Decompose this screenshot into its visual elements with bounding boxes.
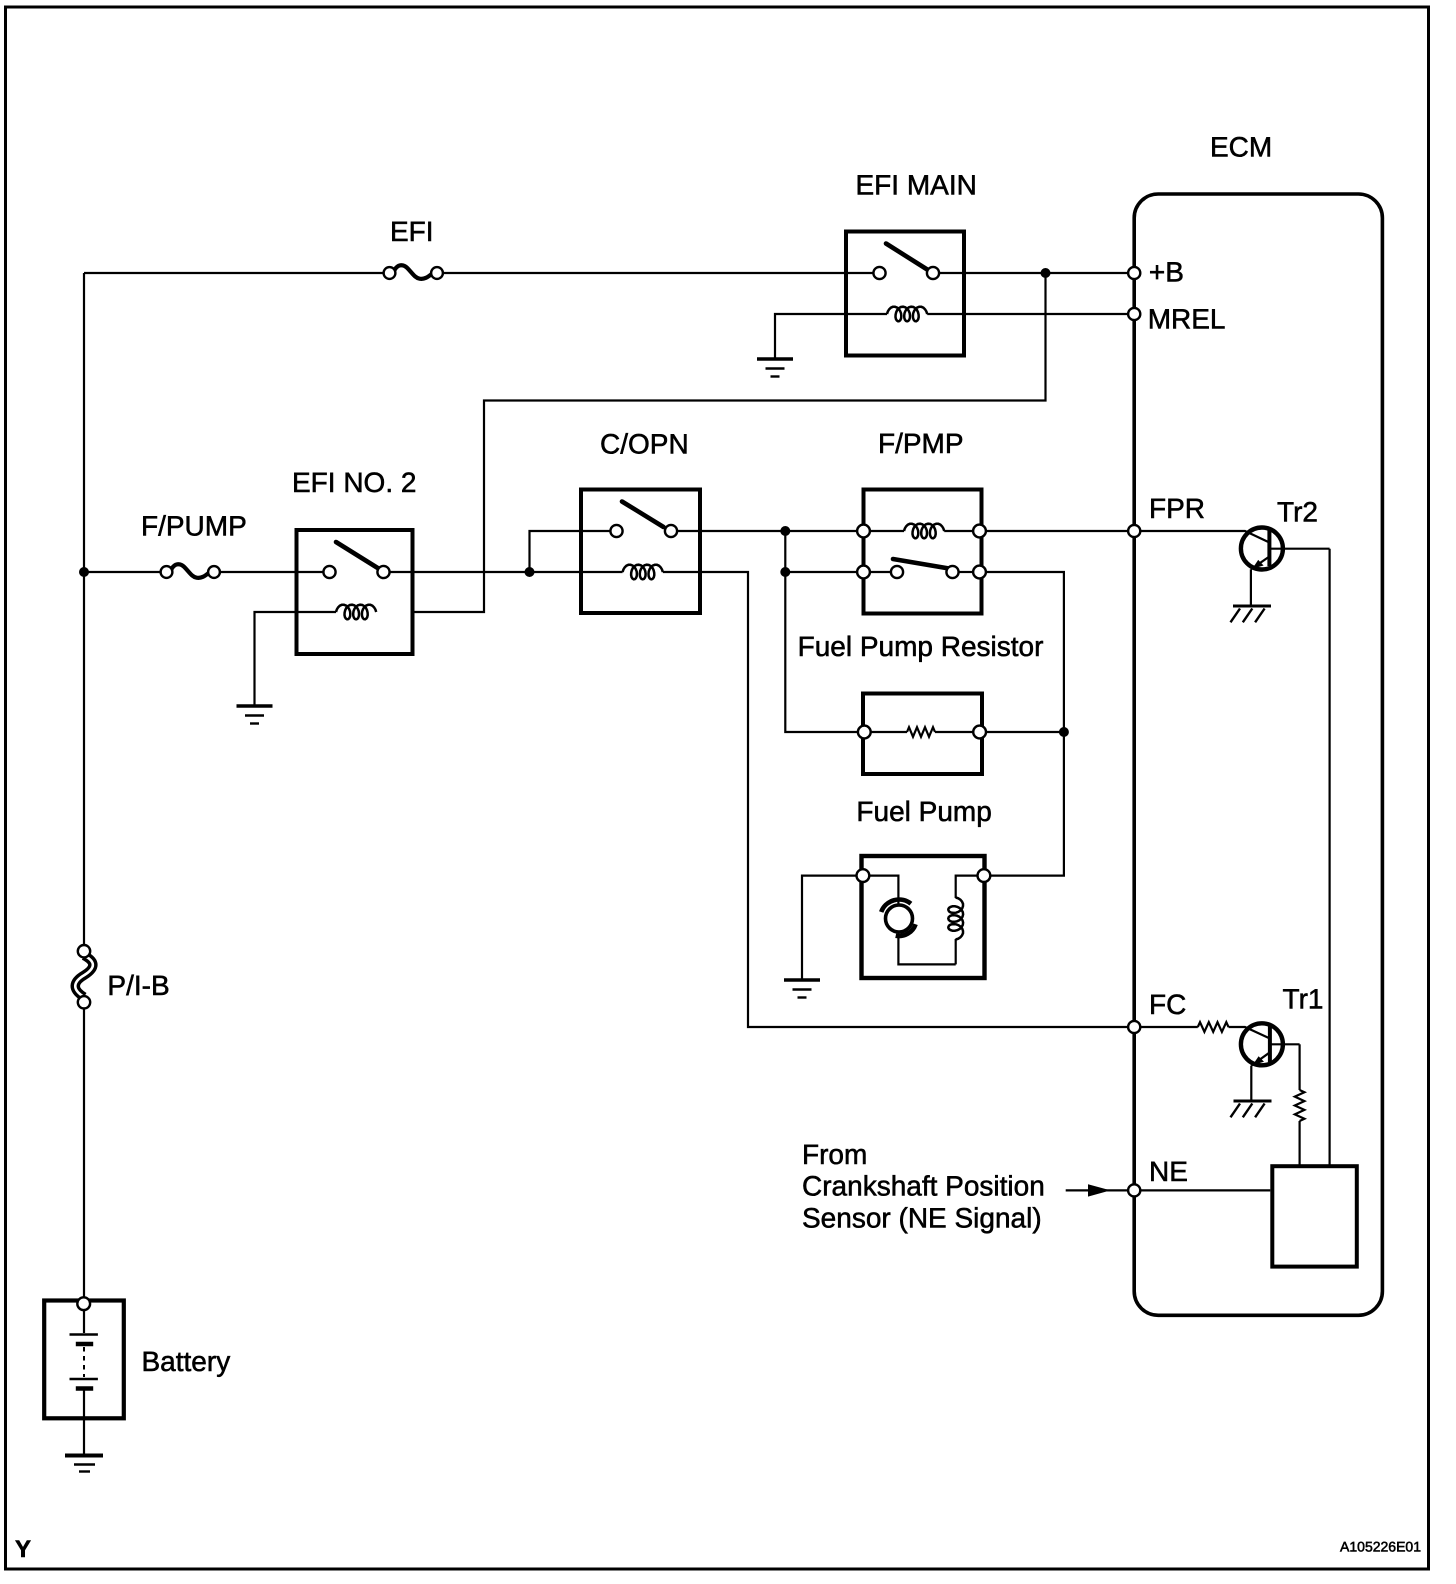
- svg-text:+B: +B: [1149, 257, 1184, 288]
- NE signal block: [1272, 1166, 1357, 1266]
- terminal FC: [1128, 1021, 1140, 1033]
- svg-text:ECM: ECM: [1210, 132, 1272, 163]
- terminal NE: [1128, 1184, 1140, 1196]
- node main junction left: [79, 567, 89, 577]
- node F/PMP coil junction: [780, 526, 790, 536]
- terminal FPR: [1128, 525, 1140, 537]
- wire P/I-B to battery: [83, 1009, 85, 1298]
- svg-text:A105226E01: A105226E01: [1340, 1539, 1421, 1555]
- wire EFI NO.2 coil to ground: [255, 612, 337, 705]
- wire junction to F/PMP switch: [785, 571, 857, 573]
- svg-text:Sensor (NE Signal): Sensor (NE Signal): [802, 1202, 1042, 1233]
- relay EFI NO. 2: [297, 530, 413, 654]
- svg-text:C/OPN: C/OPN: [600, 429, 689, 460]
- wire junction riser down to fuel pump resistor feed: [785, 531, 858, 732]
- svg-text:EFI: EFI: [390, 216, 434, 247]
- svg-text:Y: Y: [15, 1536, 31, 1563]
- transistor Tr1: [1241, 1023, 1300, 1065]
- wire fuse to EFI NO.2 relay: [220, 571, 324, 573]
- wire battery+ to EFI fuse: [84, 272, 383, 274]
- wire +B junction to EFI NO.2 coil: [415, 273, 1046, 612]
- arrow NE input: [1066, 1184, 1128, 1196]
- svg-text:F/PMP: F/PMP: [878, 428, 964, 459]
- ground (Tr1 emitter, hatched): [1231, 1101, 1272, 1117]
- wire Tr2 collector to NE block: [1328, 549, 1330, 1166]
- terminal +B: [1128, 267, 1140, 279]
- wire junction to C/OPN coil: [530, 571, 623, 573]
- ground (EFI MAIN relay coil): [757, 359, 793, 377]
- svg-text:Fuel Pump: Fuel Pump: [856, 796, 991, 827]
- wire junction riser to C/OPN switch: [530, 531, 611, 572]
- wire EFI fuse to EFI MAIN relay: [443, 272, 874, 274]
- label From Crankshaft Position Sensor: [802, 1139, 1045, 1233]
- wire battery positive riser: [83, 273, 85, 945]
- fuse EFI: [384, 265, 443, 279]
- svg-text:Tr2: Tr2: [1277, 497, 1318, 528]
- wire resistor to Tr1 base: [1229, 1027, 1270, 1039]
- wire C/OPN switch to F/PMP coil: [677, 530, 857, 532]
- relay C/OPN: [581, 490, 700, 614]
- svg-text:NE: NE: [1149, 1156, 1188, 1187]
- wire Tr1 collector down: [1298, 1044, 1300, 1090]
- pump coil: [948, 898, 963, 940]
- wire F/PMP coil to FPR terminal: [986, 530, 1129, 532]
- svg-text:From: From: [802, 1139, 867, 1170]
- wire junction to F/PUMP fuse: [84, 571, 161, 573]
- fusible link P/I-B: [75, 945, 93, 1009]
- wire Tr2 emitter to ground: [1250, 569, 1252, 605]
- wire EFI MAIN switch to +B terminal: [939, 272, 1129, 274]
- node fuel pump resistor junction: [1059, 727, 1069, 737]
- battery: [44, 1297, 124, 1454]
- svg-text:EFI MAIN: EFI MAIN: [856, 170, 977, 201]
- ECM box U1: [1134, 194, 1382, 1315]
- node +B junction: [1041, 268, 1051, 278]
- wire FPR terminal to Tr2 base: [1140, 531, 1269, 543]
- wire resistor to NE block: [1298, 1121, 1300, 1166]
- resistor Tr1 base: [1198, 1022, 1229, 1032]
- svg-text:EFI NO. 2: EFI NO. 2: [292, 467, 416, 498]
- wire Tr1 emitter to ground: [1250, 1066, 1252, 1100]
- relay EFI MAIN: [846, 232, 964, 356]
- wire EFI NO.2 switch to C/OPN junction: [390, 571, 530, 573]
- fuel pump resistor box: [858, 694, 986, 775]
- node F/PMP switch junction: [780, 567, 790, 577]
- svg-text:Tr1: Tr1: [1283, 984, 1324, 1015]
- svg-text:Crankshaft Position: Crankshaft Position: [802, 1171, 1045, 1202]
- svg-text:MREL: MREL: [1148, 304, 1226, 335]
- wire C/OPN coil to FC terminal: [663, 572, 1129, 1027]
- fuse F/PUMP: [161, 564, 220, 578]
- svg-text:FC: FC: [1149, 989, 1186, 1020]
- wire F/PMP switch to fuel pump: [986, 572, 1064, 876]
- ground (EFI NO.2 relay coil): [237, 706, 273, 724]
- ground (fuel pump): [784, 980, 820, 998]
- svg-text:Battery: Battery: [142, 1346, 231, 1377]
- wire fuel pump to ground: [802, 876, 857, 979]
- fuel pump box: [857, 856, 991, 978]
- svg-text:FPR: FPR: [1149, 493, 1205, 524]
- ground (battery): [65, 1456, 103, 1472]
- node C/OPN junction: [525, 567, 535, 577]
- wire NE terminal to block: [1140, 1189, 1270, 1191]
- resistor Tr1 collector: [1295, 1090, 1305, 1121]
- wire EFI MAIN coil to MREL terminal: [927, 313, 1129, 315]
- svg-text:Fuel Pump Resistor: Fuel Pump Resistor: [798, 631, 1044, 662]
- svg-text:P/I-B: P/I-B: [107, 970, 169, 1001]
- wire FC terminal to base resistor: [1140, 1026, 1198, 1028]
- transistor Tr2: [1241, 528, 1330, 570]
- ground (Tr2 emitter, hatched): [1231, 606, 1272, 622]
- wire fuel pump resistor to junction: [986, 731, 1064, 733]
- wire EFI MAIN coil to ground: [775, 314, 887, 358]
- svg-text:F/PUMP: F/PUMP: [141, 511, 247, 542]
- relay F/PMP: [857, 490, 986, 614]
- terminal MREL: [1128, 308, 1140, 320]
- motor M: [886, 905, 913, 932]
